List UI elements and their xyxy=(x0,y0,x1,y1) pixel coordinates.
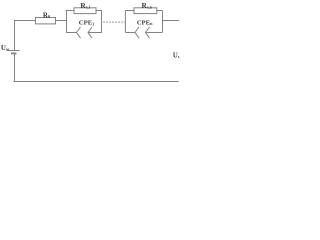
node: block1 right junction xyxy=(101,11,103,33)
node: block1 left junction xyxy=(66,11,68,33)
wire: bottom rail to negative terminal xyxy=(14,81,179,83)
capacitor CPE1 xyxy=(77,27,93,38)
wire: main rail from source to R0 xyxy=(14,20,36,22)
node: block2 right junction xyxy=(162,11,164,33)
wire: block2 top branch left xyxy=(125,10,134,12)
wire: block1 bottom branch right xyxy=(88,32,102,34)
wire: block1 bottom branch left xyxy=(66,32,77,34)
wire: block2 bottom branch left xyxy=(125,32,135,34)
svg-text:Re,n: Re,n xyxy=(142,1,153,10)
resistor Re,1 xyxy=(74,8,96,14)
wire: R0 to block1 left junction xyxy=(56,20,67,22)
svg-text:Re,1: Re,1 xyxy=(80,1,90,10)
svg-text:CPEn: CPEn xyxy=(137,20,153,27)
wire: left vertical from battery to bottom rail xyxy=(14,53,16,82)
wire: block2 top branch right xyxy=(157,10,163,12)
svg-text:CPE1: CPE1 xyxy=(79,20,94,27)
wire: output stub to positive terminal xyxy=(162,20,179,22)
svg-text:Uoc: Uoc xyxy=(1,44,10,52)
resistor Re,n xyxy=(134,8,157,14)
node: block2 left junction xyxy=(124,11,126,33)
wire: dotted continuation between blocks xyxy=(103,21,126,23)
voltage source Uoc: long plate xyxy=(7,50,20,52)
wire: block1 top branch left xyxy=(66,10,75,12)
voltage source Uoc: short plate xyxy=(11,52,17,54)
wire: block1 top branch right xyxy=(96,10,102,12)
wire: block2 bottom branch right xyxy=(146,32,163,34)
svg-text:R0: R0 xyxy=(43,11,50,19)
svg-text:Us: Us xyxy=(173,52,180,59)
wire: left vertical from rail to battery xyxy=(14,20,16,51)
resistor R0 xyxy=(36,18,56,24)
capacitor CPEn xyxy=(135,27,150,38)
